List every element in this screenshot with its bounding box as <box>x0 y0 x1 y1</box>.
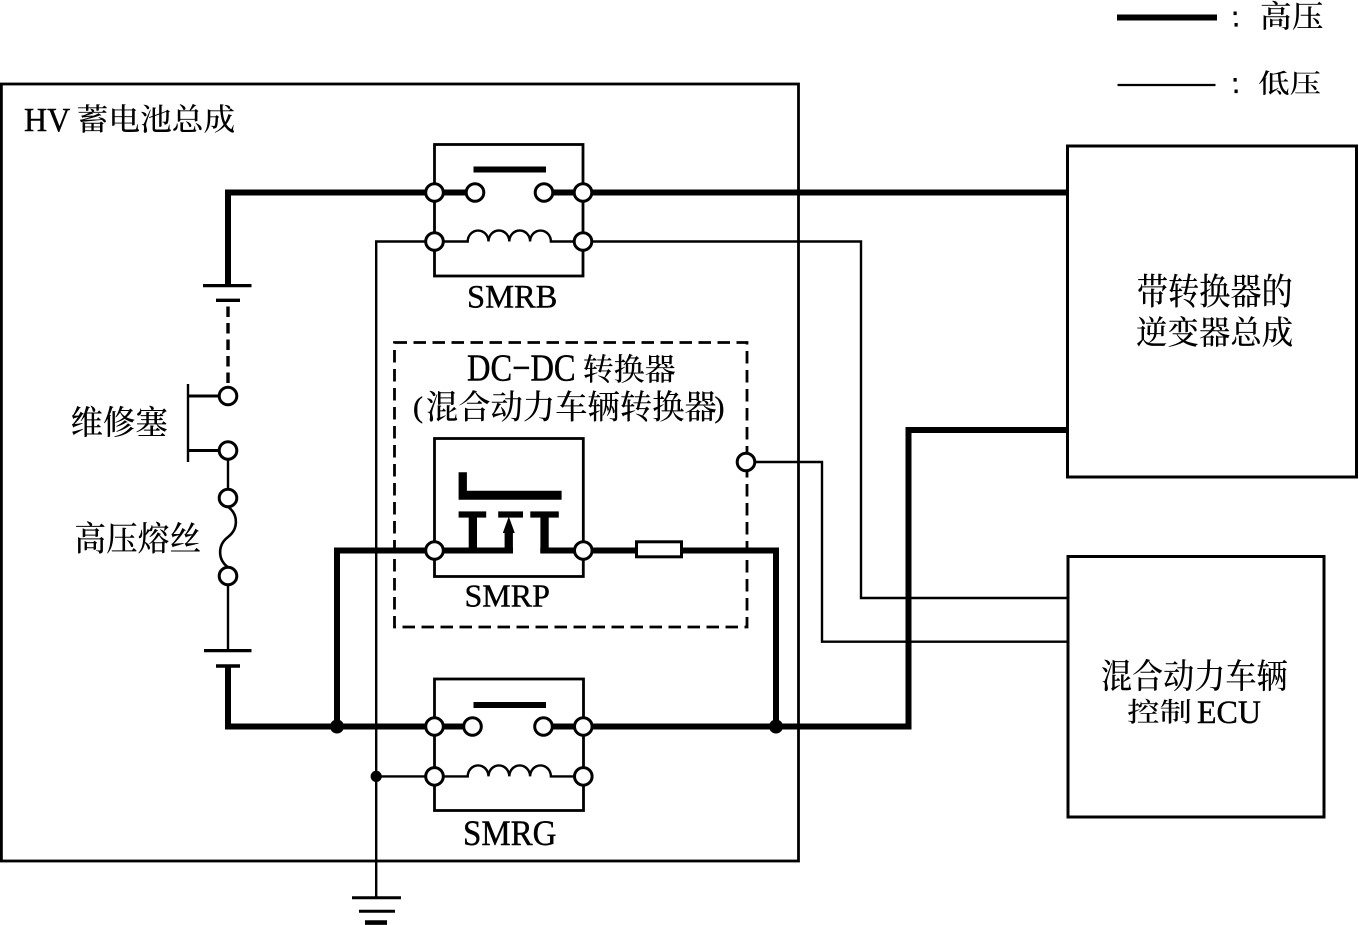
svg-text:SMRB: SMRB <box>467 280 557 316</box>
service plug upper terminal <box>219 387 237 405</box>
label 高压熔丝 <box>76 521 200 553</box>
wire service plug to fuse <box>227 459 229 489</box>
hybrid vehicle control ECU box <box>1068 557 1324 818</box>
HV battery assembly enclosure box <box>1 84 798 861</box>
legend low-voltage (thin) sample line <box>1118 84 1216 86</box>
junction: precharge branch / negative wire <box>330 720 344 734</box>
battery B1 negative plate <box>216 299 240 302</box>
label 维修塞 <box>72 406 167 437</box>
wire: battery + up and right through SMRB to inverter (segment left of contact gap) <box>228 193 466 286</box>
SMRP transistor body arrow <box>505 531 513 554</box>
svg-text:HV: HV <box>24 102 70 139</box>
svg-text:): ) <box>715 391 725 424</box>
precharge resistor R <box>637 542 682 557</box>
wire: relay coil common to chassis ground <box>376 242 425 898</box>
label 混合动力车辆 控制 ECU <box>1102 659 1287 691</box>
wire: resistor branch down to main negative wire <box>540 551 776 724</box>
relay SMRP box <box>435 439 584 577</box>
SMRB coil terminal right <box>574 233 592 251</box>
svg-text:(: ( <box>413 391 423 424</box>
wire: converter pilot to hybrid ECU <box>755 462 1067 642</box>
SMRG contact terminal left <box>426 718 444 736</box>
SMRG coil <box>442 765 576 776</box>
battery B2 negative plate <box>216 664 240 667</box>
SMRP transistor channel segments <box>459 511 487 517</box>
SMRG contact fixed left <box>464 718 482 736</box>
battery B1 positive plate <box>203 284 252 287</box>
battery B2 positive plate <box>204 649 252 652</box>
SMRB contact terminal right <box>574 184 592 202</box>
wire: SMRG coil to ground wire <box>376 775 425 777</box>
ground symbol <box>352 896 401 899</box>
SMRB coil terminal left <box>426 233 444 251</box>
SMRG contact terminal right <box>575 718 593 736</box>
fuse lower terminal <box>219 567 237 585</box>
SMRB contact fixed left <box>466 184 484 202</box>
SMRP terminal right <box>575 542 593 560</box>
junction: resistor branch / negative wire <box>769 720 783 734</box>
SMRG moving contact bar <box>474 702 547 708</box>
wire fuse to battery B2 <box>227 585 229 649</box>
service plug lower terminal <box>219 442 237 460</box>
SMRB coil <box>442 231 576 242</box>
SMRB contact terminal left <box>426 184 444 202</box>
DC-DC converter dashed enclosure <box>395 343 748 628</box>
SMRB contact fixed right <box>535 184 553 202</box>
junction: SMRG coil / ground wire <box>371 771 382 782</box>
wire: SMRB contact to inverter assembly <box>535 190 1067 196</box>
wire: battery - down and right through SMRG (left segment) <box>228 665 464 727</box>
SMRP pilot terminal on converter box <box>737 453 755 471</box>
svg-text:ECU: ECU <box>1197 694 1261 731</box>
service plug lower arm <box>188 449 221 452</box>
SMRG coil terminal left <box>426 768 444 786</box>
wire: SMRG contact right segment up to inverter assembly <box>535 430 1068 727</box>
SMRP transistor gate electrode <box>459 472 562 500</box>
svg-text:SMRG: SMRG <box>463 813 556 854</box>
SMRG contact fixed right <box>535 718 553 736</box>
label 带转换器的 逆变器总成 <box>1138 273 1292 308</box>
service plug lever bar <box>187 384 189 462</box>
legend label ：低压 <box>1234 78 1237 82</box>
SMRG coil terminal right <box>575 768 593 786</box>
SMRB moving contact bar <box>474 167 547 173</box>
svg-text:SMRP: SMRP <box>465 578 550 614</box>
service plug upper arm <box>188 395 221 398</box>
relay SMRB box <box>435 145 584 277</box>
SMRP transistor source contact <box>469 518 477 554</box>
svg-text:DC−DC: DC−DC <box>467 346 576 389</box>
dashed link between battery halves <box>226 307 229 389</box>
fuse element squiggle <box>220 507 236 567</box>
wire: SMRB coil to hybrid ECU <box>592 242 1067 599</box>
inverter with converter assembly box <box>1068 146 1357 477</box>
wire: SMRP precharge branch (left vertical) <box>337 551 513 724</box>
fuse upper terminal <box>219 489 237 507</box>
legend high-voltage (thick) sample line <box>1117 15 1217 21</box>
SMRP transistor drain contact <box>540 518 548 554</box>
SMRP terminal left <box>426 542 444 560</box>
relay SMRG box <box>435 679 584 811</box>
legend label ：高压 <box>1234 12 1237 16</box>
